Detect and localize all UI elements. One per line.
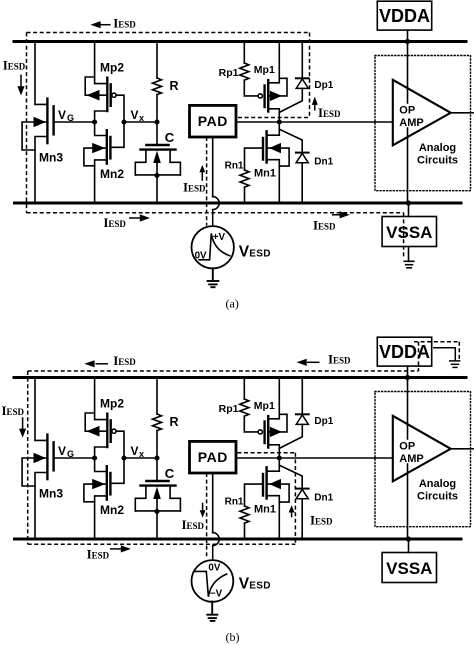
wire dashed to VSSA ground xyxy=(403,213,405,259)
ground under VESD (b) xyxy=(206,601,218,621)
ESD source VESD (b) xyxy=(212,546,214,561)
svg-text:ESD: ESD xyxy=(249,249,270,260)
IESD arrow top xyxy=(99,24,111,26)
ground under VSSA xyxy=(403,247,414,268)
wire dashed left xyxy=(27,371,29,544)
IESD arrow top left xyxy=(96,363,109,365)
svg-text:ESD: ESD xyxy=(318,222,336,232)
IESD arrow top right xyxy=(307,361,320,363)
svg-text:ESD: ESD xyxy=(118,20,136,30)
svg-text:ESD: ESD xyxy=(118,357,136,367)
svg-text:0V: 0V xyxy=(195,250,207,261)
svg-text:ESD: ESD xyxy=(92,550,110,560)
IESD arrow left xyxy=(22,417,24,429)
wire dashed bottom xyxy=(27,212,404,214)
wire dashed bottom xyxy=(28,543,296,545)
IESD arrow Dn1 (up) xyxy=(291,512,293,518)
svg-text:ESD: ESD xyxy=(333,356,351,366)
svg-text:ESD: ESD xyxy=(187,521,205,531)
svg-text:−V: −V xyxy=(210,589,223,600)
wire ESD path dashed loop (a) xyxy=(27,33,404,259)
svg-text:ESD: ESD xyxy=(108,219,126,229)
svg-text:+V: +V xyxy=(213,232,226,243)
wire dashed pad branch xyxy=(206,137,208,226)
ground at VDDA (b) xyxy=(433,348,460,368)
IESD arrow bottom right (right) xyxy=(332,214,341,216)
svg-text:(a): (a) xyxy=(226,297,239,311)
svg-text:V: V xyxy=(239,244,250,261)
svg-text:ESD: ESD xyxy=(315,517,333,527)
IESD arrow bottom left (right) xyxy=(129,217,141,219)
wire dashed Dn1 branch xyxy=(294,453,296,545)
wire dashed top xyxy=(28,370,419,372)
IESD arrow pad (up) xyxy=(201,172,203,181)
svg-text:0V: 0V xyxy=(208,563,220,574)
IESD arrow Dp1 (up) xyxy=(314,105,316,111)
svg-text:V: V xyxy=(239,576,250,593)
svg-text:ESD: ESD xyxy=(188,183,206,193)
wire dashed Dp1 branch xyxy=(309,33,311,118)
svg-text:ESD: ESD xyxy=(249,581,270,592)
wire dashed top xyxy=(27,32,310,34)
svg-text:ESD: ESD xyxy=(7,407,25,417)
IESD arrow left xyxy=(20,75,22,88)
wire dashed pad branch xyxy=(206,473,208,558)
svg-text:ESD: ESD xyxy=(8,62,26,72)
wire dashed left xyxy=(26,33,28,213)
ESD source VESD (a) xyxy=(212,210,214,227)
svg-text:ESD: ESD xyxy=(323,109,341,119)
IESD arrow pad (down) xyxy=(202,503,204,511)
IESD arrow bottom (right) xyxy=(110,548,122,550)
ground under VESD (a) xyxy=(207,267,220,287)
wire dashed VDDA riser xyxy=(418,342,420,371)
wire ESD path dashed loop (b) xyxy=(28,342,460,558)
svg-text:(b): (b) xyxy=(226,630,240,644)
